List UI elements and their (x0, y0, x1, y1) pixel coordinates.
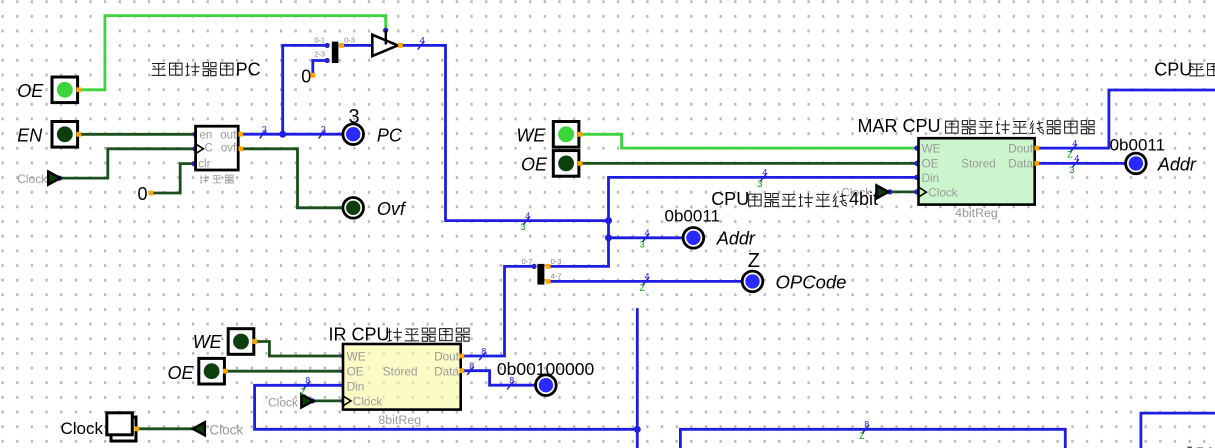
svg-text:Z: Z (859, 431, 865, 441)
svg-text:0: 0 (301, 66, 311, 86)
svg-text:WE: WE (516, 125, 546, 145)
svg-text:4: 4 (525, 211, 530, 221)
svg-text:Clock: Clock (209, 423, 243, 438)
svg-text:0-3: 0-3 (551, 257, 562, 266)
svg-text:C: C (205, 143, 213, 155)
svg-text:4: 4 (762, 168, 767, 178)
svg-text:0b0011: 0b0011 (1110, 135, 1165, 154)
svg-text:4: 4 (1072, 138, 1077, 148)
svg-text:Data: Data (434, 365, 459, 379)
svg-text:MAR CPU: MAR CPU (858, 116, 941, 136)
svg-text:0: 0 (138, 184, 148, 204)
svg-text:Stored: Stored (961, 156, 996, 170)
svg-text:IR CPU: IR CPU (329, 324, 390, 344)
svg-text:Dout: Dout (434, 349, 460, 363)
svg-text:Clock: Clock (17, 172, 48, 186)
svg-text:Z: Z (300, 387, 306, 397)
svg-text:0-1: 0-1 (314, 36, 325, 45)
svg-text:en: en (200, 130, 213, 142)
svg-text:8: 8 (509, 376, 514, 386)
svg-text:3: 3 (349, 106, 360, 128)
svg-text:Clock: Clock (353, 394, 383, 408)
svg-text:PC: PC (236, 60, 261, 80)
svg-text:8: 8 (469, 361, 474, 371)
svg-text:WE: WE (193, 332, 223, 352)
svg-text:4: 4 (644, 272, 649, 282)
svg-text:OE: OE (347, 365, 364, 379)
svg-text:3: 3 (640, 239, 645, 249)
svg-text:8: 8 (305, 376, 310, 386)
svg-text:Clock: Clock (268, 395, 299, 409)
svg-text:ovf: ovf (221, 143, 237, 155)
svg-text:Data: Data (1008, 156, 1033, 170)
svg-text:OE: OE (168, 363, 195, 383)
svg-text:EN: EN (17, 126, 43, 146)
svg-text:Stored: Stored (383, 365, 418, 379)
svg-text:PC: PC (377, 125, 403, 145)
svg-text:3: 3 (1069, 165, 1074, 175)
svg-text:OPCode: OPCode (776, 272, 847, 293)
svg-text:8bitReg: 8bitReg (378, 413, 421, 427)
svg-text:CPU: CPU (711, 189, 749, 209)
svg-text:0-7: 0-7 (522, 257, 533, 266)
svg-text:Addr: Addr (1157, 154, 1197, 174)
svg-text:0b0011: 0b0011 (665, 207, 720, 226)
svg-text:8: 8 (864, 420, 869, 430)
svg-text:OE: OE (922, 156, 939, 170)
svg-text:Z: Z (748, 250, 760, 272)
svg-text:4bit: 4bit (849, 189, 878, 209)
svg-text:WE: WE (922, 142, 941, 156)
svg-text:Z: Z (1067, 150, 1073, 160)
svg-text:4: 4 (1074, 154, 1079, 164)
svg-text:2-3: 2-3 (314, 49, 325, 58)
svg-text:3: 3 (520, 222, 525, 232)
svg-text:Z: Z (639, 283, 645, 293)
svg-text:Din: Din (922, 171, 940, 185)
svg-text:Ovf: Ovf (377, 199, 407, 219)
svg-text:clr: clr (198, 159, 210, 171)
svg-text:8: 8 (481, 346, 486, 356)
svg-text:2: 2 (262, 125, 267, 135)
svg-text:Dout: Dout (1008, 142, 1034, 156)
svg-text:4bitReg: 4bitReg (955, 206, 998, 220)
svg-text:Clock: Clock (928, 186, 958, 200)
svg-text:Clock: Clock (61, 419, 104, 438)
svg-text:3: 3 (757, 179, 762, 189)
svg-text:4: 4 (420, 36, 425, 46)
svg-text:2: 2 (321, 125, 326, 135)
svg-text:WE: WE (347, 349, 366, 363)
svg-text:OE: OE (521, 154, 548, 174)
svg-text:Addr: Addr (716, 229, 756, 249)
svg-text:4: 4 (644, 228, 649, 238)
svg-text:0-3: 0-3 (344, 36, 355, 45)
svg-text:Din: Din (347, 380, 365, 394)
svg-text:out: out (220, 130, 237, 142)
svg-text:4-7: 4-7 (551, 271, 562, 280)
svg-text:OE: OE (17, 81, 44, 101)
svg-text:CPU: CPU (1154, 59, 1192, 79)
